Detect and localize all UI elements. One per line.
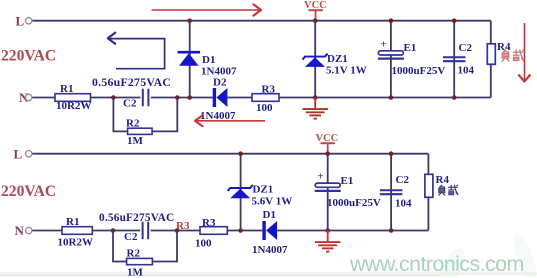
resistor R2 1M (bottom): [127, 248, 153, 278]
wire DZ1 vertical (bottom): [240, 154, 242, 231]
svg-text:220VAC: 220VAC: [1, 183, 56, 200]
junction node DZ1 rail (bottom): [238, 151, 243, 156]
wire D1 vertical (top): [189, 21, 191, 98]
ground (top): [303, 98, 328, 119]
diode D1 1N4007 (bottom): [252, 209, 288, 256]
terminal N (bottom): [15, 223, 32, 238]
svg-text:R1: R1: [60, 83, 73, 95]
svg-text:1M: 1M: [127, 267, 144, 278]
svg-text:C2: C2: [396, 174, 410, 186]
svg-text:R1: R1: [66, 216, 79, 228]
svg-text:104: 104: [395, 198, 412, 210]
wire R2 branch (bottom): [113, 231, 127, 262]
resistor R1 10R2W (bottom): [58, 216, 93, 249]
junction node C2 top (bottom): [389, 151, 394, 156]
svg-text:5.1V 1W: 5.1V 1W: [326, 65, 367, 77]
wire N terminal to R1 (bottom): [33, 230, 63, 232]
capacitor E1 1000uF25V electrolytic (bottom): [315, 171, 381, 209]
junction node R1/C2/R2 (top): [111, 95, 116, 100]
ground (bottom): [315, 231, 340, 252]
svg-text:100: 100: [256, 102, 273, 114]
junction node E1 bottom (top): [389, 95, 394, 100]
wire C2 to D2 node (top): [151, 97, 213, 99]
svg-text:D2: D2: [213, 77, 227, 89]
svg-text:+: +: [317, 171, 323, 183]
junction node C2 top (top): [452, 18, 457, 23]
junction node ground (bottom): [325, 228, 330, 233]
svg-text:1000uF25V: 1000uF25V: [327, 197, 381, 209]
svg-text:E1: E1: [341, 175, 354, 187]
watermark leaf decoration: [435, 231, 537, 278]
svg-text:L: L: [14, 147, 23, 162]
wire R2 branch right (top): [152, 98, 177, 132]
junction node R1/C2/R2 (bottom): [111, 228, 116, 233]
wire C2 to R3 (bottom): [151, 230, 200, 232]
junction node DZ1/ground (top): [313, 95, 318, 100]
svg-text:R4: R4: [436, 174, 450, 186]
resistor R4 load (bottom): [425, 174, 433, 197]
svg-text:N: N: [15, 223, 25, 238]
junction node C2/R2 right (bottom): [175, 228, 180, 233]
resistor R1 10R2W (top): [55, 83, 91, 112]
svg-text:R3: R3: [202, 217, 216, 229]
svg-text:D1: D1: [263, 209, 276, 221]
svg-text:1N4007: 1N4007: [252, 244, 288, 256]
svg-text:C2: C2: [123, 98, 137, 110]
power symbol VCC (bottom): [316, 133, 339, 154]
svg-text:C2: C2: [124, 231, 138, 243]
junction node D1 anode (top): [187, 95, 192, 100]
wire C2out vertical (top): [453, 21, 455, 98]
svg-text:0.56uF275VAC: 0.56uF275VAC: [92, 75, 171, 89]
wire C2out vertical (bottom): [390, 154, 392, 231]
label load 负载 (top): [502, 49, 524, 61]
wire L rail (top circuit): [33, 20, 491, 22]
wire E1 vertical (top): [390, 21, 392, 98]
resistor R3 100 (top): [252, 84, 279, 115]
svg-text:R3: R3: [176, 220, 190, 232]
resistor R2 1M (top): [126, 118, 152, 148]
svg-text:R2: R2: [126, 118, 140, 130]
wire ground line R3 to R4 (top): [279, 97, 491, 99]
svg-text:C2: C2: [459, 42, 473, 54]
svg-text:100: 100: [195, 237, 212, 249]
junction node VCC rail (bottom): [325, 151, 330, 156]
svg-text:10R2W: 10R2W: [56, 100, 91, 112]
resistor R4 load (top): [487, 44, 495, 65]
wire N terminal to R1 (top): [33, 97, 56, 99]
svg-text:1000uF25V: 1000uF25V: [392, 65, 446, 77]
wire R4 branch (top): [490, 21, 492, 98]
faint page border band bottom: [0, 272, 537, 275]
junction node DZ1 anode (bottom): [238, 228, 243, 233]
svg-text:+: +: [380, 38, 386, 50]
wire R1 to C2 (top): [91, 97, 141, 99]
svg-text:DZ1: DZ1: [253, 184, 274, 196]
svg-text:5.6V 1W: 5.6V 1W: [252, 196, 293, 208]
svg-text:220VAC: 220VAC: [1, 48, 56, 65]
svg-text:E1: E1: [404, 42, 417, 54]
current loop arrow (blue): [108, 33, 165, 69]
svg-text:0.56uF275VAC: 0.56uF275VAC: [99, 212, 174, 224]
capacitor C2 104 (top): [443, 42, 475, 77]
wire DZ1 vertical (top): [314, 21, 316, 98]
current direction arrow (red, right) above L rail: [152, 4, 262, 15]
svg-text:R3: R3: [262, 84, 276, 96]
wire R2 branch right (bottom): [152, 231, 177, 262]
junction node E1 top (top): [389, 18, 394, 23]
wire R4 branch (bottom): [427, 154, 429, 231]
wire R1 to C2 (bottom): [92, 230, 140, 232]
svg-text:10R2W: 10R2W: [58, 237, 93, 249]
label load 负载 (bottom): [439, 185, 458, 196]
zener diode DZ1 5.1V (top): [303, 53, 367, 77]
wire R3 to D1 (bottom): [227, 230, 262, 232]
junction node D1 rail (top): [187, 18, 192, 23]
terminal L (top): [16, 14, 32, 29]
junction node C2 bottom (bottom): [389, 228, 394, 233]
capacitor C2 0.56uF X-cap (bottom): [124, 222, 148, 243]
terminal N (top): [19, 90, 32, 105]
diode D2 1N4007 (top): [200, 77, 236, 123]
svg-text:D1: D1: [202, 54, 215, 66]
wire D1 to ground node (bottom): [277, 230, 428, 232]
resistor R3 100 (bottom): [195, 217, 227, 249]
diode D1 1N4007 (top): [178, 52, 237, 77]
svg-text:104: 104: [458, 65, 475, 77]
capacitor C2 104 (bottom): [380, 174, 412, 210]
junction node VCC rail (top): [313, 18, 318, 23]
power symbol VCC (top): [304, 0, 327, 21]
wire E1 vertical (bottom): [327, 154, 329, 231]
capacitor C2 0.56uF X-cap (top): [123, 89, 148, 110]
capacitor E1 1000uF25V electrolytic (top): [378, 38, 445, 77]
svg-text:R2: R2: [127, 248, 141, 260]
wire R2 branch (top): [113, 98, 127, 132]
svg-text:L: L: [16, 14, 25, 29]
junction node C2/R2 right (top): [175, 95, 180, 100]
zener diode DZ1 5.6V (bottom): [228, 184, 293, 208]
junction node C2 bottom (top): [452, 95, 457, 100]
wire D2 to R3 (top): [227, 97, 252, 99]
wire L rail (bottom circuit): [33, 153, 429, 155]
current return arrow (red, left) (top): [195, 115, 265, 126]
terminal L (bottom): [14, 147, 32, 162]
svg-text:1M: 1M: [127, 135, 144, 147]
load current arrow (red, down) (top): [519, 23, 530, 82]
svg-text:www.cntronics.com: www.cntronics.com: [349, 252, 524, 276]
svg-text:DZ1: DZ1: [327, 53, 348, 65]
